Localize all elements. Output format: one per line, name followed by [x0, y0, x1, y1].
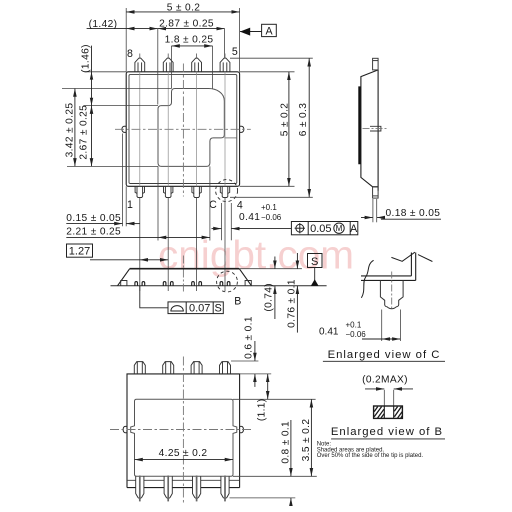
- pin 1 (bottom row): [135, 186, 144, 197]
- svg-text:0.8 ± 0.1: 0.8 ± 0.1: [280, 421, 291, 464]
- dimension (1.46) and 2.67±0.25 (left): [90, 46, 93, 167]
- dimension 0.6±0.1: [254, 341, 256, 387]
- bottom view body: [127, 374, 240, 488]
- svg-text:0.6 ± 0.1: 0.6 ± 0.1: [244, 316, 255, 359]
- svg-text:A: A: [265, 25, 273, 37]
- bottom view pad: [131, 399, 237, 476]
- bottom view top pins: [134, 362, 230, 374]
- pin 2 (bottom row): [164, 186, 173, 197]
- svg-text:2.87 ± 0.25: 2.87 ± 0.25: [159, 19, 214, 30]
- svg-text:5 ± 0.2: 5 ± 0.2: [279, 103, 290, 137]
- bottom view left tab: [123, 426, 127, 432]
- 0.18 extension lines: [373, 199, 377, 222]
- bottom view centerline horizontal: [110, 429, 251, 431]
- bottom view right tab: [240, 426, 244, 432]
- dimension 1.27 (boxed, pitch): [67, 244, 169, 260]
- enlarged C break lines: [361, 252, 432, 298]
- detail circle C (dashed): [216, 180, 238, 202]
- svg-text:+0.1: +0.1: [261, 203, 277, 212]
- dimension 0.8±0.1: [290, 420, 292, 505]
- side view top lead: [373, 58, 379, 70]
- side view body profile: [361, 70, 378, 191]
- enlarged C centerline: [391, 272, 393, 309]
- svg-text:8: 8: [127, 48, 133, 60]
- exposed pad outline (top view): [158, 89, 224, 167]
- dimension 1.8±0.25: [172, 45, 213, 47]
- centerline horizontal (top view): [115, 128, 251, 130]
- svg-text:C: C: [209, 199, 217, 211]
- datum A flag: [240, 24, 276, 37]
- dimension 2.21±0.25: [66, 236, 210, 238]
- pin 4 (bottom row): [220, 186, 229, 197]
- dimension 3.5±0.2: [310, 399, 312, 476]
- svg-text:Enlarged view of B: Enlarged view of B: [331, 426, 443, 438]
- pin center thin lines through body: [140, 72, 225, 187]
- front view left tab: [121, 281, 127, 286]
- svg-text:Enlarged view of C: Enlarged view of C: [328, 349, 441, 361]
- svg-text:1.27: 1.27: [69, 246, 90, 258]
- bottom view inner parting line: [127, 479, 240, 481]
- seating plane line: [111, 285, 327, 287]
- svg-text:Over 50% of the side of the ti: Over 50% of the side of the tip is plate…: [317, 453, 424, 459]
- enlarged B lead tip section: [374, 406, 403, 418]
- svg-text:cnigbt.com: cnigbt.com: [158, 234, 354, 278]
- leader to flatness frame: [140, 286, 168, 308]
- top view body inner line: [129, 75, 237, 184]
- top view body outer: [126, 72, 239, 187]
- front leads 1-4: [135, 282, 230, 286]
- bottom view extensions: [230, 361, 317, 498]
- svg-text:4: 4: [237, 200, 243, 212]
- dimension 5±0.2 (right vertical): [288, 72, 290, 187]
- svg-text:S: S: [215, 303, 222, 315]
- svg-text:(1.42): (1.42): [89, 19, 118, 30]
- feature control frame 0.05 M A: [291, 222, 357, 235]
- dimension 4.25±0.2: [135, 459, 234, 461]
- pin 5 (top row): [220, 54, 230, 72]
- bottom view bottom pins: [136, 476, 229, 498]
- svg-text:0.15 ± 0.05: 0.15 ± 0.05: [66, 213, 121, 224]
- svg-text:5 ± 0.2: 5 ± 0.2: [167, 2, 201, 13]
- front view left slant: [118, 269, 130, 286]
- svg-text:3.5 ± 0.2: 3.5 ± 0.2: [301, 419, 312, 462]
- side view pad edge (thick): [358, 86, 360, 164]
- pin 3 (bottom row): [192, 186, 201, 197]
- svg-text:(0.74): (0.74): [264, 283, 275, 312]
- front view top edge extension: [239, 268, 302, 270]
- svg-text:0.18 ± 0.05: 0.18 ± 0.05: [386, 208, 441, 219]
- front view centerline: [182, 256, 184, 294]
- dimension 5±0.2 (top width): [126, 11, 239, 13]
- enlarged C lead: [380, 280, 403, 308]
- side tab right (top view): [239, 126, 244, 132]
- svg-text:6 ± 0.3: 6 ± 0.3: [298, 103, 309, 137]
- svg-text:1.8 ± 0.25: 1.8 ± 0.25: [165, 35, 214, 46]
- centerline vertical (top view): [182, 64, 184, 197]
- svg-text:−0.06: −0.06: [346, 330, 367, 339]
- svg-text:2.67 ± 0.25: 2.67 ± 0.25: [78, 105, 89, 160]
- front view right tab: [245, 281, 251, 286]
- enlarged C body corner: [361, 253, 416, 281]
- svg-text:4.25 ± 0.2: 4.25 ± 0.2: [159, 448, 208, 459]
- svg-text:S: S: [311, 256, 318, 268]
- enlarged C dimension 0.41: [382, 310, 401, 342]
- front view right slant: [239, 269, 251, 286]
- pin 6 (top row): [192, 54, 202, 72]
- dimension (0.74): [274, 257, 276, 320]
- datum S flag: [308, 254, 323, 286]
- dimension 0.15±0.05: [66, 223, 140, 225]
- svg-text:2.21 ± 0.25: 2.21 ± 0.25: [66, 227, 121, 238]
- dimension 6±0.3 (right vertical): [308, 58, 310, 197]
- bottom pins center bars: [140, 476, 225, 502]
- extension lines: [62, 8, 313, 291]
- svg-text:0.07: 0.07: [189, 303, 210, 315]
- svg-text:−0.06: −0.06: [261, 213, 282, 222]
- dimension 0.41 +0.1/-0.06 (pin width): [212, 228, 292, 230]
- svg-text:0.76 ± 0.1: 0.76 ± 0.1: [286, 279, 297, 328]
- flatness frame 0.07 S: [168, 302, 223, 314]
- bottom view centerline vertical: [182, 357, 184, 503]
- svg-text:B: B: [234, 296, 241, 308]
- dimension 3.42±0.25 (left): [74, 89, 76, 167]
- svg-text:0.05: 0.05: [310, 223, 331, 235]
- svg-text:0.41: 0.41: [319, 327, 339, 338]
- svg-text:(1.1): (1.1): [257, 398, 268, 421]
- side view mid tab: [370, 126, 381, 131]
- side view centerline: [363, 128, 387, 130]
- detail circle B (dashed): [217, 271, 238, 292]
- svg-text:M: M: [336, 224, 343, 233]
- dimension 0.76±0.1: [296, 253, 298, 333]
- front view body top edge: [130, 268, 240, 270]
- svg-text:(1.46): (1.46): [80, 44, 91, 73]
- pin 7 (top row): [163, 54, 173, 72]
- dimension (1.42) and 2.87±0.25: [87, 28, 225, 30]
- svg-text:3.42 ± 0.25: 3.42 ± 0.25: [65, 103, 76, 158]
- pad step line to body edge: [224, 137, 237, 139]
- pin 8 (top row): [135, 54, 145, 72]
- dimension (1.1): [267, 374, 269, 399]
- svg-text:(0.2MAX): (0.2MAX): [362, 374, 408, 385]
- side view bottom lead: [373, 187, 379, 198]
- svg-text:+0.1: +0.1: [346, 321, 362, 330]
- svg-text:A: A: [350, 223, 358, 235]
- svg-text:0.41: 0.41: [239, 212, 260, 223]
- svg-text:5: 5: [232, 46, 238, 58]
- side tab left (top view): [122, 126, 126, 132]
- svg-text:1: 1: [127, 199, 133, 211]
- dimension 0.18±0.05 (lead thickness): [361, 218, 441, 220]
